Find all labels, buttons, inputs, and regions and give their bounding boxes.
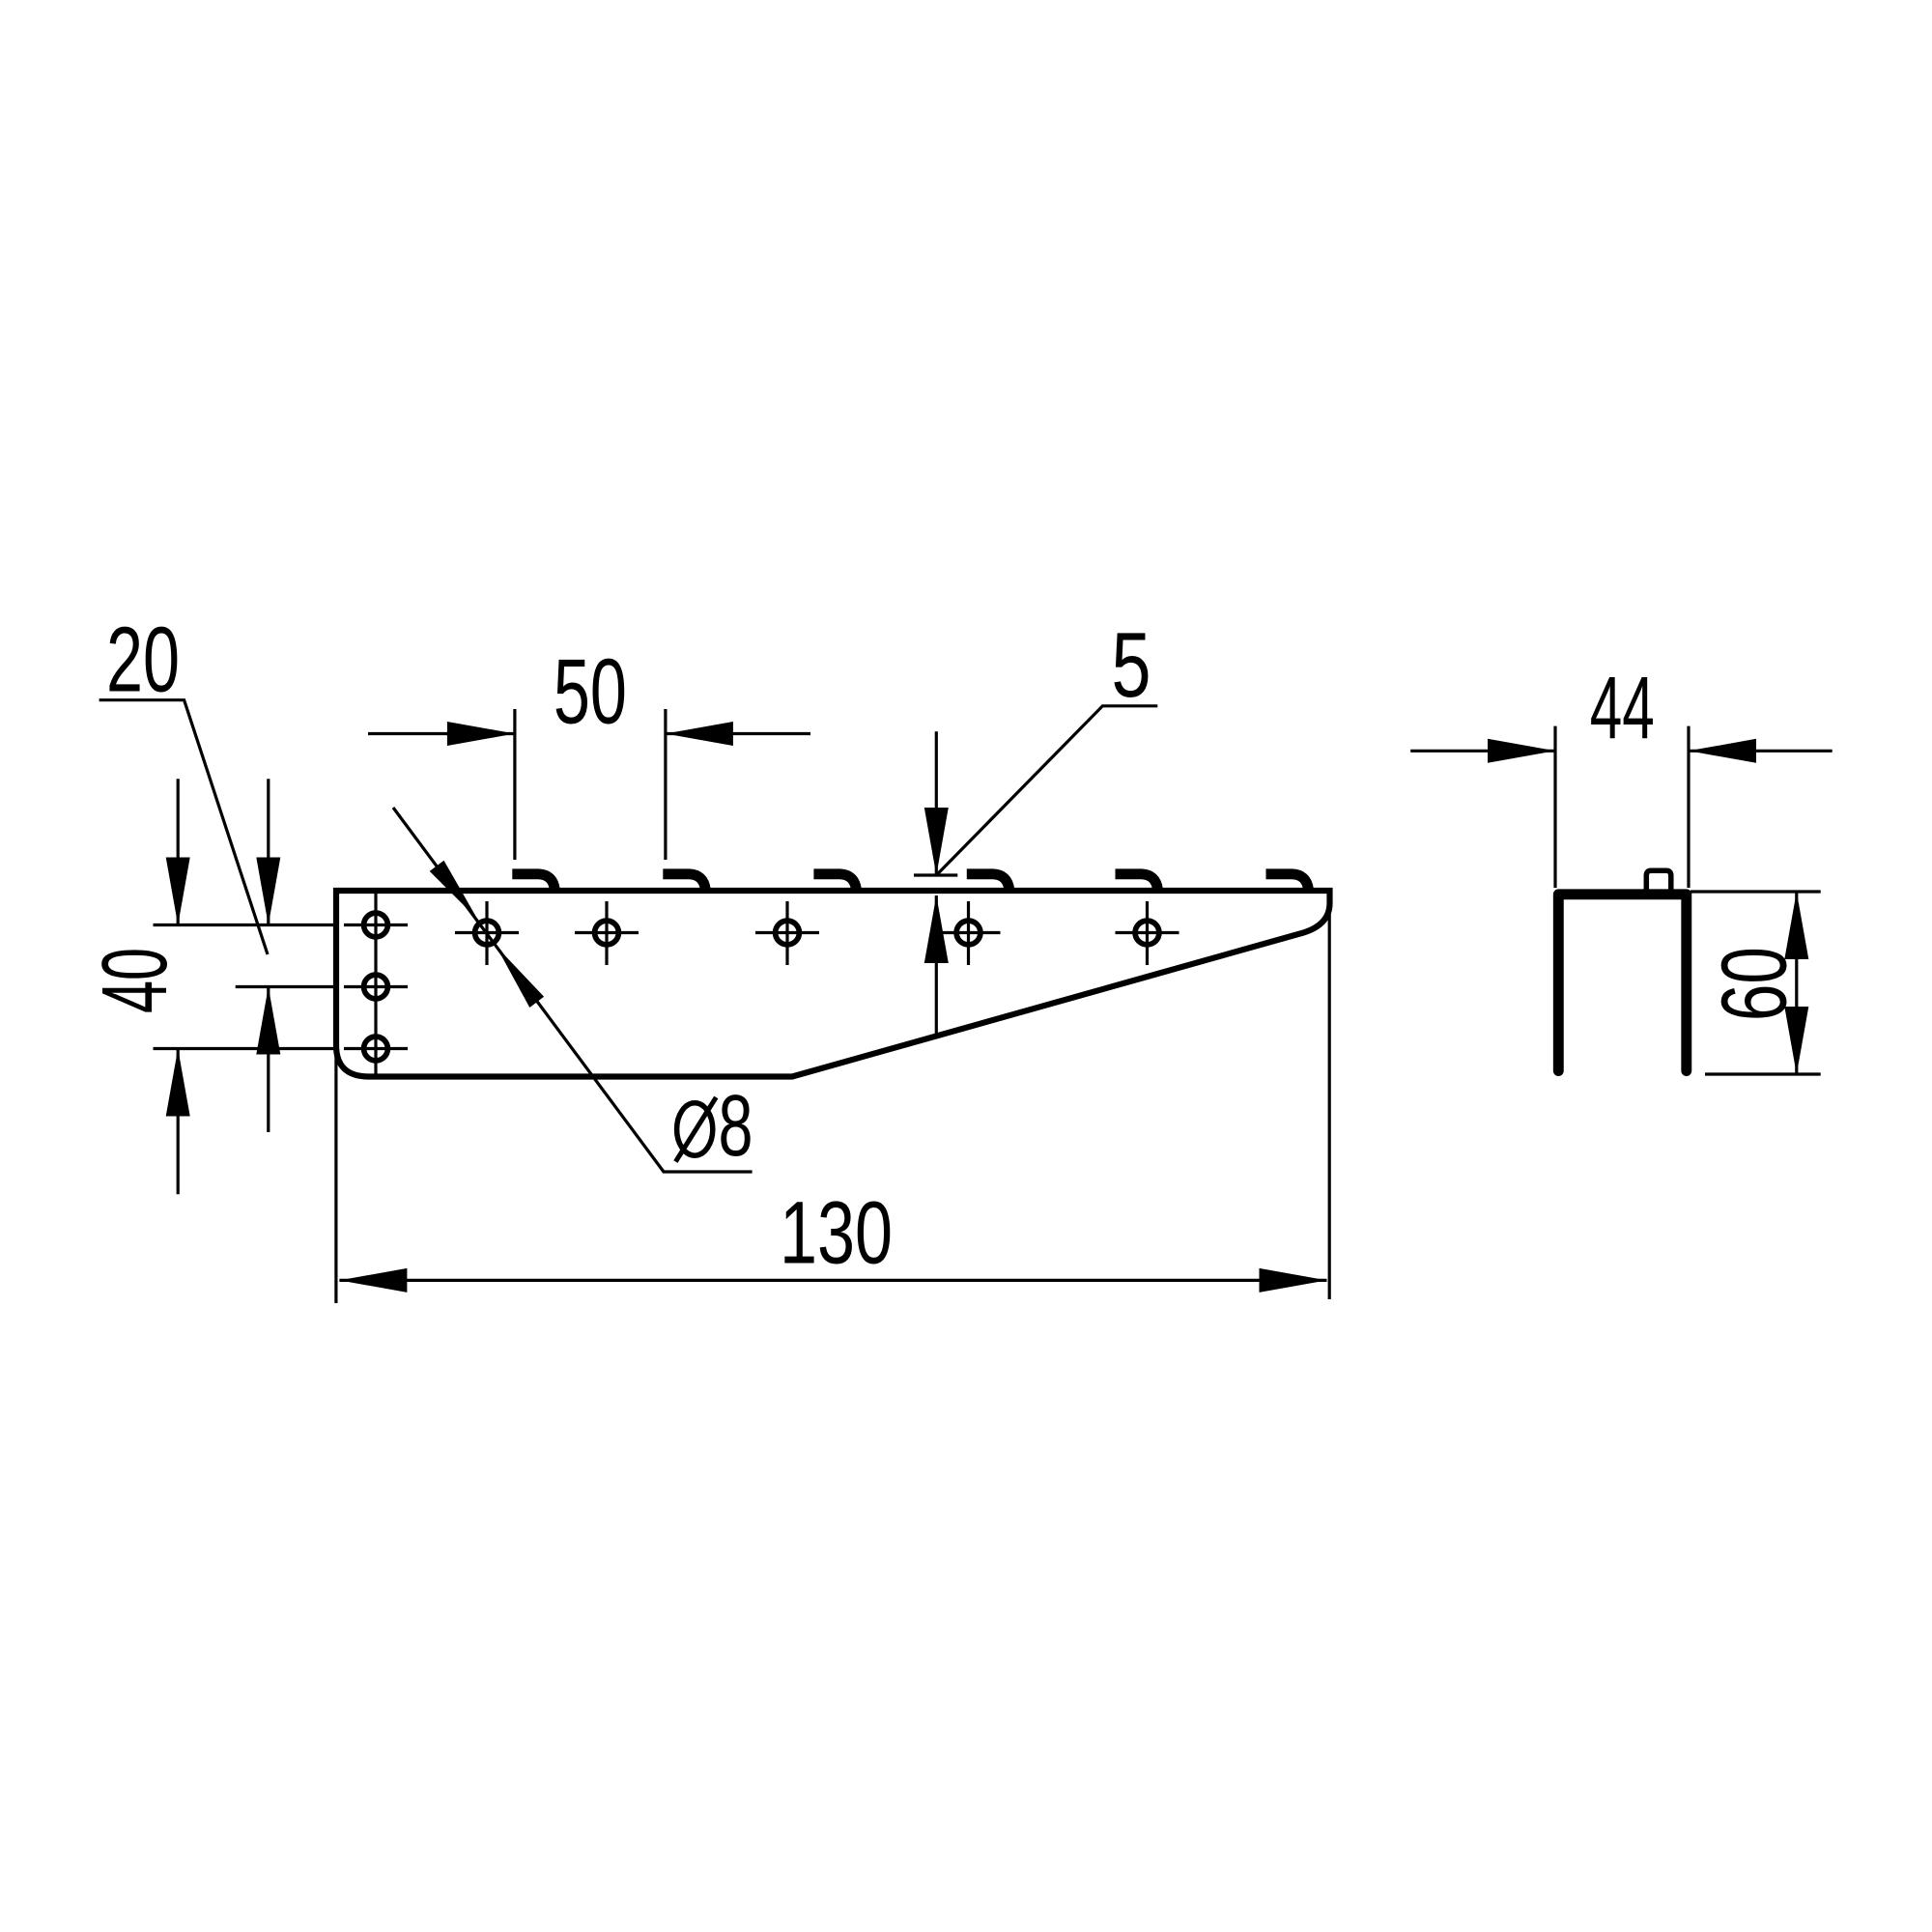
svg-text:5: 5 — [1112, 613, 1151, 717]
hole C — [575, 901, 639, 965]
svg-text:130: 130 — [780, 1184, 893, 1283]
hole A3 — [344, 1037, 408, 1061]
dimension 5 — [914, 613, 1157, 1035]
clip hook 5 — [1116, 874, 1158, 890]
clip hook 4 — [967, 874, 1009, 890]
dimension 20 — [99, 609, 281, 1133]
bracket outline (side view) — [336, 891, 1330, 1077]
left column hole centerline — [374, 893, 377, 1075]
dimension 50 — [368, 640, 810, 860]
clip hook 1 — [512, 874, 554, 890]
clip hook 3 — [813, 874, 856, 890]
channel tab — [1646, 870, 1671, 890]
clip hook 6 — [1266, 874, 1309, 890]
dimension 60 — [1690, 892, 1821, 1074]
diameter leader line Ø8 — [393, 808, 753, 1172]
extension line row2 — [236, 985, 334, 988]
svg-text:44: 44 — [1590, 659, 1655, 757]
hole A1 — [344, 913, 408, 937]
hole A2 — [344, 975, 408, 999]
svg-text:60: 60 — [1702, 947, 1805, 1021]
svg-text:20: 20 — [106, 609, 180, 712]
dimension 44 — [1410, 659, 1833, 888]
svg-text:8: 8 — [719, 1078, 753, 1175]
svg-text:50: 50 — [554, 640, 627, 744]
dimension 40 — [83, 779, 190, 1194]
hole E — [937, 901, 1001, 965]
dimension 130 — [336, 908, 1329, 1303]
hole D — [755, 901, 819, 965]
clip hook 2 — [663, 874, 705, 890]
hole F — [1116, 901, 1179, 965]
extension line row1 — [154, 923, 335, 926]
label Ø8 — [675, 1078, 753, 1175]
channel profile (end view) — [1558, 895, 1687, 1071]
svg-text:40: 40 — [83, 948, 186, 1013]
hole B — [455, 901, 519, 965]
extension line row3 — [154, 1047, 335, 1050]
